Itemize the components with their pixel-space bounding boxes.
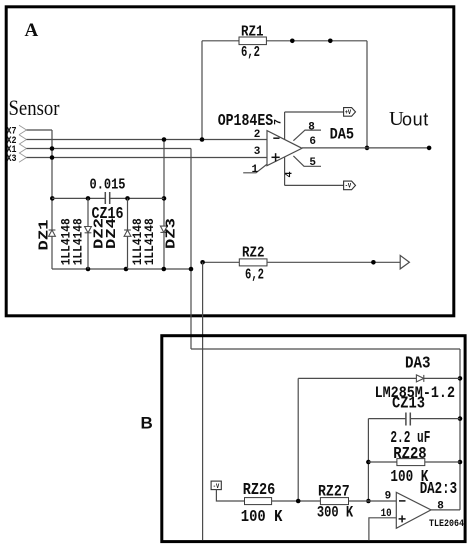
wire vertical from X2 line down to capacitor bus at x=164 — [163, 140, 165, 270]
svg-text:-V: -V — [345, 183, 352, 190]
pin 7 wire vertical — [284, 112, 286, 140]
junction dot top bus right at x=164 — [162, 196, 167, 201]
svg-text:RZ28: RZ28 — [393, 444, 426, 463]
svg-text:2: 2 — [254, 129, 261, 141]
junction dot pin 9 — [366, 499, 371, 504]
svg-text:CZ13: CZ13 — [392, 394, 425, 413]
svg-text:DA2:3: DA2:3 — [420, 479, 457, 498]
resistor RZ28 — [368, 459, 460, 466]
junction dot on RZ1 wire a — [290, 39, 295, 44]
svg-text:8: 8 — [437, 500, 444, 512]
junction dot top bus DZ4 — [125, 196, 130, 201]
svg-text:RZ1: RZ1 — [241, 23, 264, 40]
svg-text:1: 1 — [252, 164, 259, 176]
svg-text:0.015: 0.015 — [90, 177, 126, 194]
output wire pin 6 — [302, 147, 429, 149]
svg-text:Sensor: Sensor — [9, 95, 61, 120]
op-amp U DA2:3 triangle — [396, 492, 431, 528]
svg-text:OP184ES: OP184ES — [218, 111, 274, 130]
diode DZ1 — [49, 230, 56, 236]
svg-text:+V: +V — [345, 109, 352, 116]
pin 10 wire with vertical to bottom — [369, 518, 396, 541]
wire vertical from X1 line down into box B at x=191 — [190, 149, 192, 350]
resistor RZ2 — [203, 259, 401, 266]
junction dot top bus DZ2 — [86, 196, 91, 201]
svg-text:7: 7 — [274, 119, 285, 125]
connector X7 — [7, 125, 27, 137]
pin 5 stub — [293, 156, 321, 166]
svg-text:6,2: 6,2 — [245, 266, 264, 283]
output wire pin 8 — [431, 509, 460, 511]
svg-text:8: 8 — [308, 122, 315, 134]
wire RZ1 right vertical down to output — [366, 41, 368, 148]
junction dot RZ2 left — [200, 260, 205, 265]
wire to +V flag — [285, 111, 344, 113]
top bus of diode network — [52, 197, 105, 199]
out arrow of RZ2 — [400, 255, 409, 269]
svg-text:100 K: 100 K — [241, 507, 283, 526]
svg-text:RZ2: RZ2 — [242, 245, 265, 262]
junction dot on RZ1 wire b — [328, 39, 333, 44]
wire vertical X7/X1/X3 common at x=52 — [51, 130, 53, 269]
resistor RZ27 — [320, 498, 396, 505]
junction dot right bus DA3 — [458, 376, 463, 381]
svg-text:DA3: DA3 — [405, 354, 431, 373]
capacitor CZ16 plates — [105, 192, 109, 204]
output end dot — [427, 146, 432, 151]
svg-text:RZ27: RZ27 — [318, 483, 350, 501]
wire CZ13 left vertical at x=368 — [367, 419, 369, 501]
svg-text:TLE2064: TLE2064 — [429, 519, 464, 530]
svg-text:6,2: 6,2 — [241, 44, 260, 61]
svg-text:RZ26: RZ26 — [243, 480, 276, 499]
plus sign of DA2:3 — [399, 515, 406, 522]
junction dot bottom bus DZ4 — [124, 267, 129, 272]
svg-text:5: 5 — [309, 157, 316, 169]
junction dot bottom bus DZ2 — [86, 267, 91, 272]
svg-text:X3: X3 — [7, 154, 17, 165]
wire X3 horizontal to op-amp pin 3 — [27, 157, 267, 159]
top bus right segment — [110, 197, 164, 199]
wire X7 horizontal — [27, 129, 53, 131]
wire DA3 anode vertical at x=298 — [297, 378, 299, 501]
wire RZ1 left vertical down to X2 line — [201, 41, 203, 140]
connector X1 — [7, 144, 27, 156]
svg-text:4: 4 — [285, 171, 296, 177]
wire DA3 horizontal — [298, 377, 460, 379]
frame box A — [6, 7, 454, 316]
junction dot RZ2 right — [371, 260, 376, 265]
diode DZ4 — [124, 230, 131, 236]
svg-text:9: 9 — [385, 490, 392, 502]
pin 1 stub — [243, 164, 267, 172]
junction dot RZ26/RZ27 — [296, 499, 301, 504]
frame box B — [162, 336, 465, 542]
svg-text:300 K: 300 K — [317, 504, 354, 522]
pin 8 stub — [293, 130, 321, 141]
wire X2 horizontal to op-amp pin 2 — [27, 139, 267, 141]
svg-text:1LL4148: 1LL4148 — [71, 218, 86, 265]
power flag -V (box B) — [211, 481, 221, 490]
svg-text:DA5: DA5 — [330, 126, 355, 144]
junction dot output at x=367 — [365, 146, 370, 151]
plus sign of DA5 — [272, 153, 280, 161]
svg-text:DZ3: DZ3 — [164, 218, 179, 249]
resistor RZ26 — [245, 498, 321, 505]
minus sign of DA5 — [273, 137, 279, 139]
svg-text:6: 6 — [309, 136, 316, 148]
label Uout — [389, 108, 429, 130]
wire -V stub to RZ26 — [216, 490, 244, 501]
junction dot top bus left at x=52 — [50, 196, 55, 201]
svg-text:B: B — [141, 414, 153, 433]
wire X1 horizontal — [27, 148, 192, 150]
wire DZ4 branch vertical — [127, 198, 129, 269]
svg-text:1LL4148: 1LL4148 — [142, 218, 157, 265]
junction dot RZ28 left — [366, 460, 371, 465]
wire to -V flag — [285, 184, 344, 186]
wire DZ2 branch vertical — [87, 198, 89, 269]
op-amp U DA5 triangle — [267, 131, 302, 166]
connector X2 — [7, 135, 27, 147]
connector X3 — [7, 153, 27, 165]
junction dot right bus RZ28 — [458, 460, 463, 465]
diode DA3 — [416, 375, 423, 382]
wire RZ2 left vertical down to box B bottom — [202, 262, 204, 540]
junction dot X2 at x=202 — [200, 137, 205, 142]
resistor RZ1 — [202, 37, 367, 45]
svg-text:DZ1: DZ1 — [38, 220, 53, 251]
junction dot X2 at x=164 — [162, 137, 167, 142]
bottom bus of diode network — [52, 268, 191, 270]
junction dot bottom bus at x=191 — [189, 267, 194, 272]
junction dot X3 at x=52 — [50, 155, 55, 160]
diode DZ3 — [160, 226, 167, 232]
svg-text:A: A — [25, 20, 39, 41]
svg-text:DZ4: DZ4 — [105, 218, 120, 249]
svg-text:-V: -V — [213, 483, 220, 490]
junction dot X1 at x=52 — [50, 146, 55, 151]
pin 4 wire vertical — [284, 157, 286, 186]
svg-text:out: out — [402, 110, 429, 130]
capacitor CZ13 — [368, 413, 460, 426]
diode DZ2 — [85, 227, 92, 233]
svg-text:3: 3 — [254, 146, 261, 158]
power flag -V — [344, 181, 356, 190]
wire top link inside B — [191, 348, 460, 350]
junction dot bottom bus DZ3 — [162, 267, 167, 272]
minus sign of DA2:3 — [399, 500, 406, 502]
power flag +V — [344, 108, 356, 117]
wire right bus vertical — [459, 349, 461, 510]
junction dot right bus CZ13 — [458, 416, 463, 421]
